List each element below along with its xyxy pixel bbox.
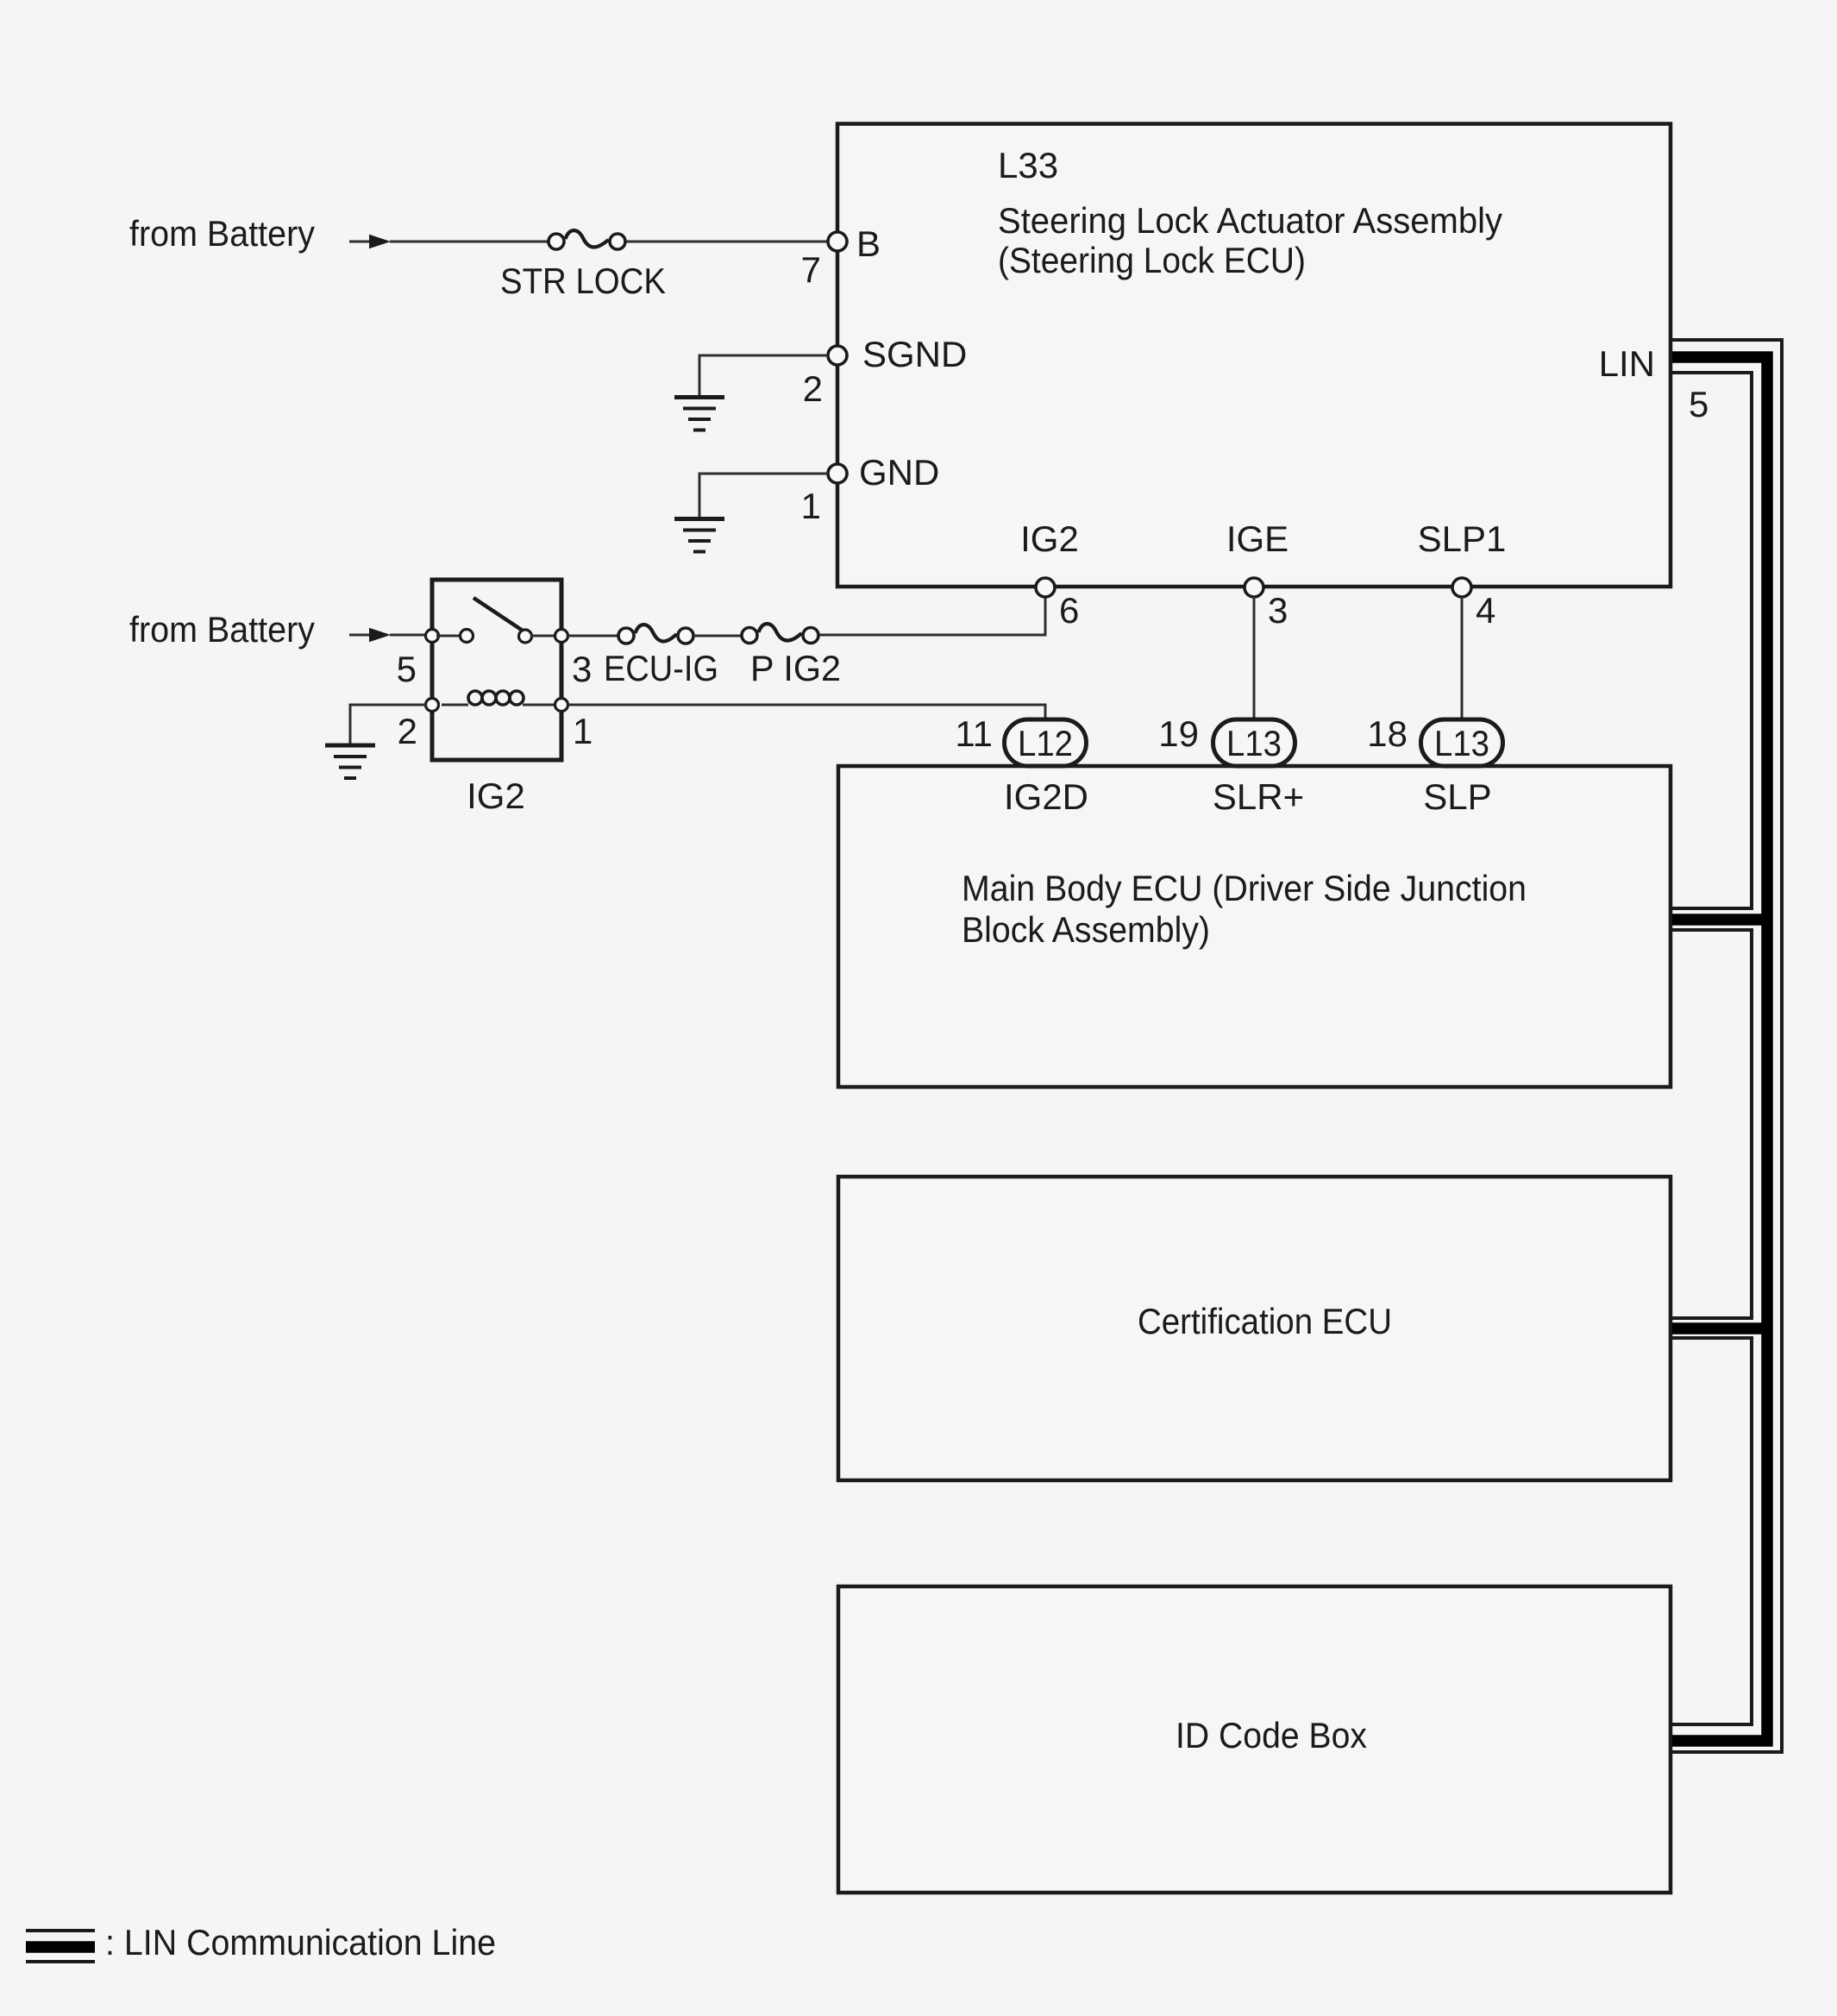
- wire relay pin 1 to connector L12: [567, 705, 1045, 721]
- svg-text:IG2: IG2: [1020, 518, 1079, 559]
- wire battery to relay pin 5: [390, 634, 426, 637]
- relay pin 5: [426, 630, 439, 643]
- svg-text:Block Assembly): Block Assembly): [962, 909, 1210, 950]
- svg-text:(Steering Lock ECU): (Steering Lock ECU): [998, 240, 1306, 280]
- svg-text:SLP1: SLP1: [1418, 518, 1507, 559]
- LIN pin 5 label of U1: [1599, 343, 1709, 424]
- svg-text:from Battery: from Battery: [129, 213, 315, 254]
- pin 2 SGND of U1: [803, 334, 968, 409]
- wire fuse to pin B: [626, 241, 828, 243]
- ground G3 (relay): [325, 745, 375, 778]
- ground G2 (GND): [674, 519, 724, 552]
- ECU box U3 Certification ECU: [838, 1177, 1671, 1480]
- svg-text:L33: L33: [998, 145, 1058, 185]
- legend LIN communication line symbol: [26, 1922, 496, 1963]
- svg-text:SLR+: SLR+: [1213, 776, 1304, 817]
- pin 4 SLP1 of U1: [1418, 518, 1507, 631]
- svg-text:from Battery: from Battery: [129, 609, 315, 650]
- connector L13 pin 18: [1367, 713, 1502, 817]
- pin 6 IG2 of U1: [1020, 518, 1079, 631]
- fuse P IG2: [742, 624, 841, 688]
- svg-text:IG2: IG2: [467, 776, 525, 816]
- wire SGND to ground: [699, 355, 828, 396]
- svg-text:SGND: SGND: [862, 334, 967, 374]
- relay wire contact to pin3: [530, 635, 557, 637]
- svg-text:2: 2: [803, 368, 823, 409]
- relay pin 2: [426, 699, 439, 712]
- wire GND to ground: [699, 474, 828, 518]
- svg-text:STR LOCK: STR LOCK: [500, 261, 666, 301]
- wire relay pin 3 to fuse ECU-IG: [568, 635, 619, 637]
- wire fuse ECU-IG to fuse P IG2: [693, 635, 743, 637]
- svg-text:Steering Lock Actuator Assembl: Steering Lock Actuator Assembly: [998, 200, 1502, 241]
- svg-text:GND: GND: [859, 452, 939, 493]
- svg-text:19: 19: [1158, 713, 1199, 754]
- svg-text:IGE: IGE: [1226, 518, 1288, 559]
- connector L13 pin 19: [1158, 713, 1304, 817]
- svg-text:B: B: [856, 223, 881, 264]
- svg-text:11: 11: [955, 713, 993, 754]
- relay pin 1: [555, 699, 568, 712]
- svg-text:2: 2: [398, 711, 417, 751]
- LIN bus thick line U1 to ID Code Box: [1672, 357, 1767, 1741]
- wire battery to fuse STR LOCK: [390, 241, 549, 243]
- relay wire pin5 to contact: [436, 635, 461, 637]
- svg-text:LIN: LIN: [1599, 343, 1655, 384]
- ground G1 (SGND): [674, 398, 724, 430]
- svg-text:3: 3: [1268, 590, 1288, 631]
- ECU box U1 Steering Lock Actuator Assembly: [837, 124, 1671, 587]
- fuse ECU-IG: [604, 625, 718, 688]
- svg-text:L13: L13: [1434, 723, 1489, 763]
- svg-text:1: 1: [573, 711, 592, 751]
- svg-text:ID Code Box: ID Code Box: [1176, 1715, 1367, 1755]
- fuse STR LOCK: [500, 230, 666, 301]
- svg-text:6: 6: [1059, 590, 1079, 631]
- ECU box U2 Main Body ECU: [838, 766, 1671, 1087]
- LIN bus stub to Main Body ECU: [1672, 914, 1767, 926]
- svg-text:IG2D: IG2D: [1004, 776, 1088, 817]
- pin 1 GND of U1: [801, 452, 940, 526]
- pin 7 B of U1: [801, 223, 881, 290]
- arrow from battery top: [349, 235, 391, 248]
- svg-text:4: 4: [1476, 590, 1495, 631]
- svg-text:3: 3: [572, 649, 592, 689]
- wire SLP1 to connector L13: [1461, 597, 1464, 721]
- svg-text:5: 5: [1689, 384, 1708, 424]
- svg-text:P IG2: P IG2: [750, 648, 841, 688]
- arrow from battery lower: [349, 628, 391, 642]
- svg-text:ECU-IG: ECU-IG: [604, 648, 718, 688]
- svg-text:5: 5: [397, 649, 417, 689]
- svg-text:7: 7: [801, 249, 821, 290]
- pin 3 IGE of U1: [1226, 518, 1288, 631]
- svg-text:SLP: SLP: [1423, 776, 1491, 817]
- relay switch blade: [473, 598, 523, 631]
- connector L12 pin 11: [955, 713, 1088, 817]
- svg-text:Certification ECU: Certification ECU: [1138, 1301, 1392, 1341]
- relay coil: [442, 704, 468, 707]
- svg-text:18: 18: [1367, 713, 1408, 754]
- wire relay pin 2 to ground: [350, 705, 426, 744]
- svg-text:Main Body ECU (Driver Side Ju: Main Body ECU (Driver Side Junction: [962, 868, 1527, 908]
- LIN bus stub to Certification ECU: [1672, 1322, 1767, 1335]
- svg-text:1: 1: [801, 486, 821, 526]
- ECU box U4 ID Code Box: [838, 1586, 1671, 1893]
- wire fuse P IG2 to pin 6 IG2: [819, 597, 1045, 635]
- relay pin 3: [555, 630, 568, 643]
- svg-text:: LIN Communication Line: : LIN Communication Line: [105, 1922, 496, 1963]
- svg-text:L12: L12: [1018, 723, 1073, 763]
- wire IGE to connector L13: [1253, 597, 1256, 721]
- relay K1 IG2: [397, 580, 593, 816]
- svg-text:L13: L13: [1226, 723, 1282, 763]
- LIN bus thin outline: [1672, 340, 1782, 1752]
- relay switch contact: [461, 630, 473, 643]
